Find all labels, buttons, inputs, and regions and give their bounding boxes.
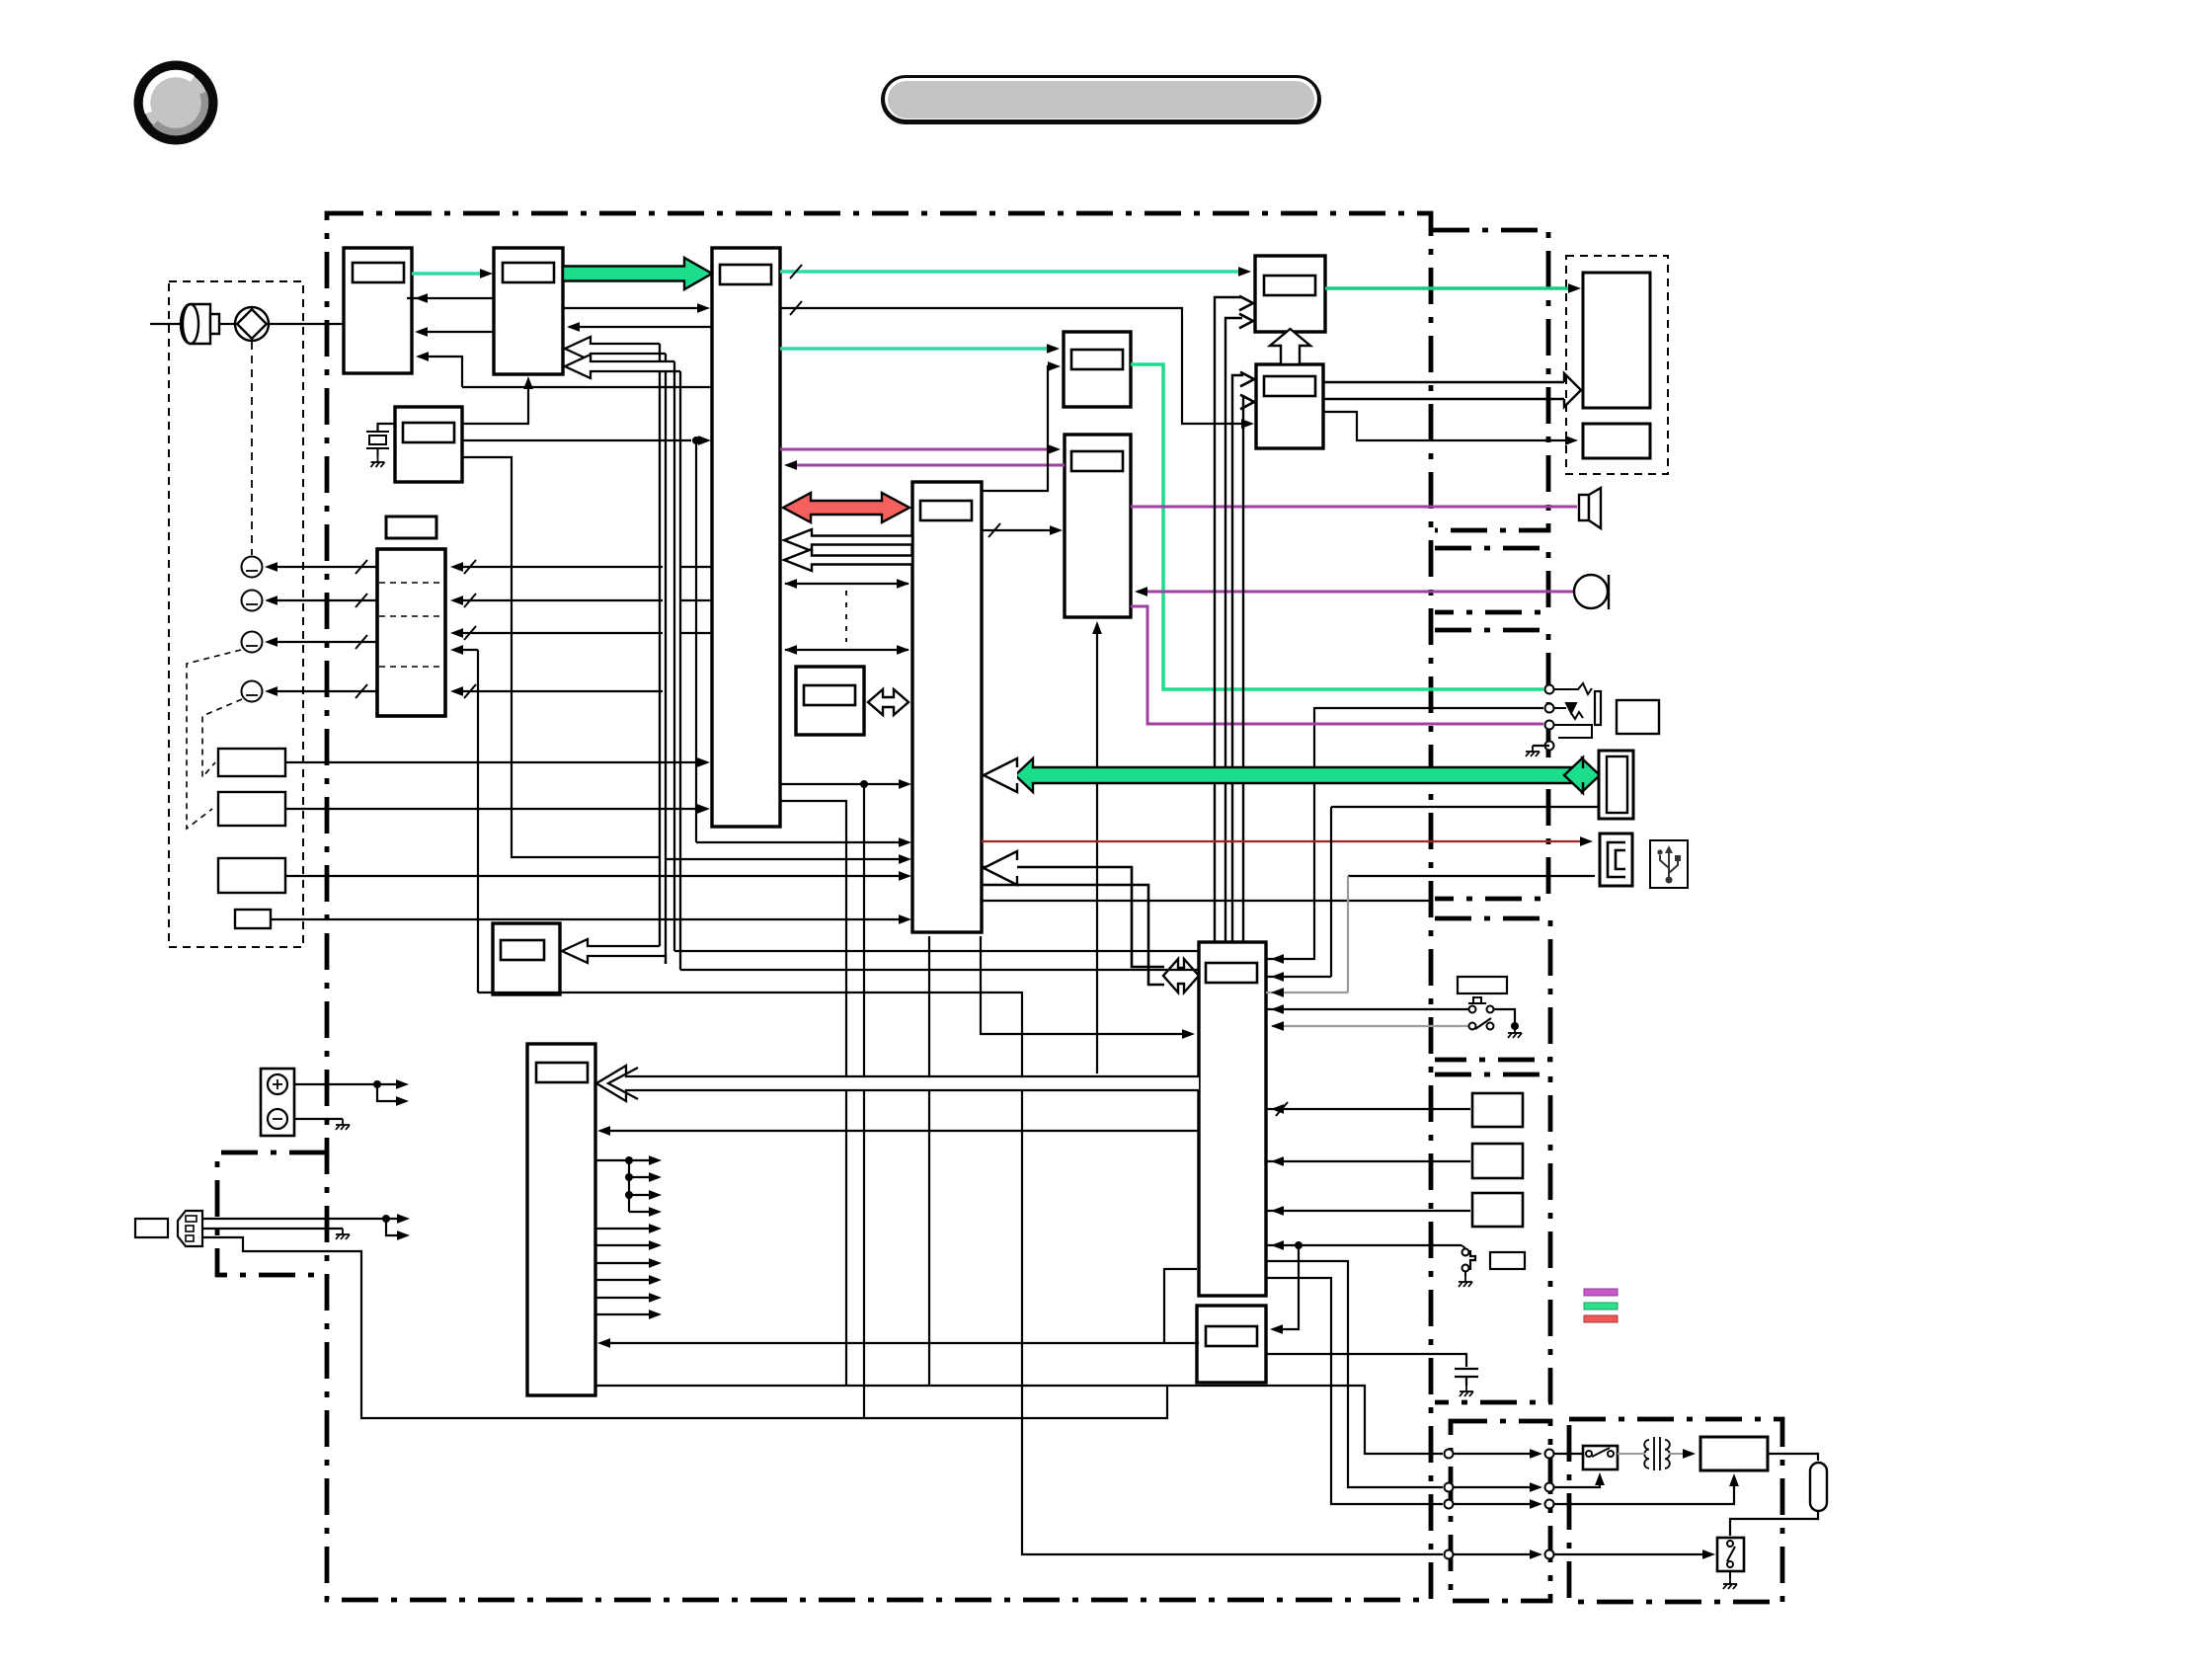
connector pin P1 right y1574	[1545, 1550, 1554, 1559]
wire IC602 to IC701	[601, 1342, 1199, 1344]
wire	[785, 649, 908, 651]
wire SW801 return	[1494, 1009, 1515, 1026]
LCD unit dashed outline	[1566, 256, 1668, 474]
wire clock to CPU	[696, 841, 907, 843]
board outline MAIN BOARD	[327, 213, 1431, 1600]
wire clock branch down	[695, 440, 697, 842]
block IC701 system control	[527, 1044, 595, 1395]
wire DSP aux out down	[780, 801, 846, 1386]
wire p2 vertical	[1330, 807, 1332, 977]
wire SW3 out	[285, 875, 907, 877]
crystal X1	[366, 432, 389, 456]
wire CPU bottom to power IC	[981, 936, 1191, 1034]
jack pin circles	[1545, 685, 1554, 694]
green audio bus IC102 to DSP	[563, 258, 712, 289]
tact switch SW803	[1462, 1249, 1469, 1256]
wire	[785, 583, 908, 585]
wire sensorA to power IC	[1266, 1108, 1470, 1110]
wire osc to IC102 clock	[462, 380, 528, 424]
wire matrix in y641	[454, 632, 663, 634]
wire IC102 to DSP b	[563, 307, 706, 309]
jack circle 4	[242, 681, 263, 702]
red wire CPU to USB	[982, 840, 1589, 842]
block IC602 regulator	[1197, 1306, 1266, 1383]
gray wire relay to transformer	[1618, 1453, 1645, 1455]
wire key line 2	[269, 599, 377, 601]
wire key line 1	[269, 566, 377, 568]
block IC201 DSP	[712, 248, 780, 827]
dashed vertical from preamp	[251, 342, 253, 555]
hollow bus into IC102 upper	[565, 337, 666, 360]
block IC301 main CPU	[912, 482, 982, 932]
wire jack sleeve ground	[1533, 745, 1549, 747]
wire bus vertical pair b	[673, 361, 675, 951]
wire matrix in y574	[454, 566, 663, 568]
dock connector	[1599, 751, 1633, 819]
block SW3	[218, 858, 285, 893]
wire rectifier out	[1768, 1454, 1818, 1461]
block IC102 ADC	[494, 248, 563, 374]
ground AC neutral	[336, 1229, 350, 1239]
block LCD panel	[1583, 273, 1650, 408]
connector pin P1 right y1523	[1545, 1500, 1554, 1509]
block X101 oscillator IC	[395, 407, 462, 482]
hollow bus into IC102 lower	[565, 355, 680, 378]
block IC101 mic amp	[344, 248, 412, 373]
wire	[1243, 398, 1244, 942]
headphone symbol	[1574, 575, 1609, 609]
ground filter cap	[1460, 1386, 1473, 1396]
wire dock aux	[1331, 806, 1599, 808]
block SW4 small	[235, 910, 271, 928]
block LCD backlight	[1583, 424, 1650, 458]
wire matrix 658 vertical	[477, 650, 479, 993]
block IC302 EEPROM	[796, 667, 864, 735]
capacitor C1	[1455, 1369, 1478, 1386]
block R4 switch label rect	[1458, 977, 1507, 993]
wire IC701 fan 1192	[629, 1176, 656, 1178]
headphone jack symbol	[1554, 683, 1601, 738]
wire key line 3	[269, 641, 377, 643]
gray wire switch2 to power IC	[1272, 1025, 1472, 1027]
purple wire amp to DSP	[787, 464, 1065, 467]
connector pin P1 right y1506	[1545, 1483, 1554, 1492]
wire bus vertical pair a	[659, 344, 661, 946]
wire switch1 to power IC	[1266, 1008, 1472, 1010]
ground battery minus	[336, 1119, 350, 1130]
purple wire amp to headphone	[1138, 591, 1574, 594]
wire battery plus	[294, 1083, 377, 1085]
wire	[1164, 1269, 1197, 1343]
mic unit dashed outline	[169, 281, 303, 947]
wire	[1232, 375, 1243, 942]
wire power IC p2	[1266, 976, 1331, 978]
hollow bus CPU to DSP a	[784, 529, 912, 551]
wire IC102 to IC101 d	[418, 331, 494, 333]
ground SW802	[1508, 1027, 1522, 1038]
wire osc clock to DSP	[462, 439, 691, 441]
connector pin P1 left y1574	[1445, 1550, 1454, 1559]
wire	[1323, 398, 1564, 400]
hollow bus into IC701	[596, 1066, 1199, 1101]
wire IC701 out 1296	[595, 1279, 656, 1281]
wire power IC to P1 b	[1266, 1261, 1443, 1487]
board outline R4 switch board	[1435, 918, 1550, 1060]
wire IC701 out 1279	[595, 1262, 656, 1264]
wire DSP to IC102 c	[569, 326, 712, 328]
block IC502 LCD controller	[1256, 364, 1323, 448]
transformer T901	[1644, 1437, 1670, 1470]
wire	[1215, 297, 1242, 942]
wire IC701 out 1314	[595, 1297, 656, 1299]
wire IC701 fan vertical	[628, 1160, 630, 1212]
wire IC701 fan 1210	[629, 1194, 656, 1196]
wire to IC101 f	[419, 357, 462, 387]
wire power IC to P1 c	[1266, 1278, 1443, 1504]
wire SW1 out	[285, 761, 707, 763]
wire key line 4	[269, 690, 377, 692]
green wire LCD driver to panel	[1325, 286, 1577, 290]
legend purple bar	[1584, 1289, 1618, 1296]
hollow double head power IC	[1163, 959, 1199, 993]
dashed ellipsis between arrows	[845, 591, 847, 642]
speaker symbol	[1579, 488, 1601, 528]
wire P1 feed y1472	[1454, 1453, 1539, 1455]
jack circle 3	[242, 632, 263, 653]
relay SW901	[1583, 1446, 1618, 1469]
wire teal IC101 to IC102	[412, 272, 488, 276]
title bar	[881, 75, 1321, 124]
wire to filter cap	[1265, 1354, 1466, 1367]
wire AC branch a	[386, 1218, 404, 1220]
green wire codec to jack tip	[1131, 364, 1543, 689]
battery switch SW902	[1717, 1538, 1744, 1571]
wire osc out2 route	[462, 457, 660, 857]
battery cell symbol	[1810, 1463, 1827, 1511]
hollow head at CPU side	[984, 758, 1017, 792]
battery terminal block	[261, 1069, 294, 1136]
hollow up arrow LCDC to LCD driver	[1270, 329, 1310, 364]
connector pin P1 left y1506	[1445, 1483, 1454, 1492]
block B11 spare rect	[386, 516, 436, 538]
wire mic to preamp	[219, 323, 235, 325]
wire to backlight	[1323, 412, 1574, 440]
USB connector	[1600, 834, 1632, 886]
wire battery plus branch b	[377, 1084, 403, 1101]
wire stub to DSP y608	[680, 599, 712, 601]
hollow bus inner chevron	[608, 1068, 638, 1099]
rectifier block	[1700, 1437, 1768, 1470]
board outline battery pack	[217, 1152, 326, 1275]
wire AC branch b	[386, 1219, 404, 1235]
microphone symbol	[181, 304, 219, 344]
wire R6 switch to power IC	[1266, 1244, 1461, 1246]
wire CPU aux out	[982, 900, 1431, 902]
wire matrix to power board	[478, 993, 1443, 1554]
wire P1 feed y1574	[1454, 1553, 1539, 1555]
wire pin to relay	[1554, 1453, 1583, 1455]
wire sensorB to power IC	[1266, 1160, 1470, 1162]
wire power IC to IC701	[601, 1130, 1199, 1132]
board outline AC ADAPTER P2	[1569, 1419, 1782, 1602]
wire	[982, 867, 1164, 967]
block SW2	[218, 792, 285, 826]
wire CPU to amp	[982, 529, 1059, 531]
wire AC live	[202, 1218, 386, 1220]
wire sensorC to power IC	[1266, 1210, 1470, 1212]
wire AC mains run	[202, 1237, 1167, 1418]
block IC501 LCD driver	[1255, 256, 1325, 332]
wire DSP to LCDC	[780, 308, 1250, 424]
wire IC701 fan 1227	[629, 1211, 656, 1213]
wire stub to DSP y574	[680, 566, 712, 568]
hollow bus CPU to DSP b	[784, 549, 912, 571]
board outline R2 jack board	[1435, 548, 1548, 612]
wire	[629, 1159, 656, 1161]
connector pin P1 right y1472	[1545, 1450, 1554, 1459]
board outline sub column top extension	[1433, 230, 1548, 530]
teal wire DSP to LCD driver	[780, 270, 1247, 274]
wire crystal to osc	[378, 424, 396, 432]
teal wire DSP to codec	[780, 347, 1056, 351]
wire into CPU y870	[665, 858, 907, 860]
green bus left head of right double-head	[1564, 757, 1583, 793]
connector pin P1 left y1523	[1445, 1500, 1454, 1509]
wire DSP to CPU k	[780, 783, 907, 785]
wire cell to switch	[1730, 1511, 1818, 1536]
ground SW902	[1723, 1578, 1737, 1589]
wire DSP feedback	[462, 386, 712, 388]
wire IC701 out 1261	[595, 1244, 656, 1246]
board outline R5 sensor board	[1435, 1074, 1550, 1402]
wire	[1225, 318, 1242, 942]
block sensor A	[1472, 1093, 1523, 1127]
wire P1 feed y1523	[1454, 1503, 1539, 1505]
block R6 switch label rect	[1490, 1252, 1525, 1269]
wire stub to DSP y641	[680, 632, 712, 634]
push switch SW801	[1468, 997, 1486, 1003]
wire IC701 out 1331	[595, 1313, 656, 1315]
wire SW2 out	[285, 808, 706, 810]
wire p3 gray	[1266, 992, 1348, 993]
ground crystal	[371, 456, 385, 467]
block IC401 audio codec	[1064, 332, 1131, 407]
wire	[1323, 381, 1564, 383]
jack circle 2	[242, 591, 263, 611]
slide switch SW802	[1469, 1023, 1476, 1030]
dashed link circle4 to SW1	[202, 699, 242, 777]
wire IC701 fan head	[595, 1159, 629, 1161]
wire bus rail b	[680, 969, 1199, 971]
purple wire amp to jack ring	[1131, 606, 1543, 724]
USB logo box	[1650, 840, 1688, 888]
wire into SW902	[1554, 1553, 1709, 1555]
wire	[1554, 1477, 1734, 1504]
wire battery minus	[294, 1118, 343, 1120]
red bus DSP CPU	[783, 493, 909, 522]
wire	[1554, 1477, 1600, 1487]
block S101 key matrix	[377, 549, 445, 716]
wire	[1273, 1245, 1299, 1329]
wire bus rail a	[674, 950, 1199, 952]
wire AC neutral	[202, 1228, 343, 1230]
legend red bar	[1584, 1315, 1618, 1322]
mic preamp diamond symbol	[235, 307, 269, 341]
board outline R3 connector board	[1435, 630, 1548, 899]
wire matrix in 700	[454, 690, 663, 692]
purple wire amp to speaker	[1131, 506, 1577, 509]
dashed link circle3 to SW2	[187, 650, 241, 829]
gray wire transformer to rectifier	[1669, 1453, 1692, 1455]
wire	[982, 885, 1164, 985]
wire	[696, 439, 706, 441]
wire CPU to codec	[982, 366, 1057, 491]
block IC601 power management	[1199, 942, 1266, 1296]
hollow head CPU side	[984, 851, 1017, 885]
wire	[1713, 1553, 1718, 1555]
block sensor B	[1472, 1144, 1523, 1178]
block IC402 amp	[1065, 435, 1131, 617]
wire CPU bottom down	[928, 936, 930, 1386]
hollow bus EEPROM CPU	[868, 689, 908, 715]
hollow bus into IC703	[562, 939, 666, 964]
wire IC701 to power board	[595, 1386, 1443, 1454]
wire preamp to IC101	[269, 323, 344, 325]
purple wire DSP to amp	[780, 448, 1057, 451]
wire vertical from junction	[863, 784, 865, 1418]
green system bus	[1015, 758, 1600, 792]
wire USB aux	[1348, 875, 1595, 877]
legend green bar	[1584, 1303, 1618, 1310]
connector pin P1 left y1472	[1445, 1450, 1454, 1459]
block SW1	[218, 749, 285, 776]
page number knob circle	[139, 66, 213, 140]
jack circle 1	[242, 557, 263, 578]
wire P1 feed y1506	[1454, 1486, 1539, 1488]
wire battery plus branch a	[377, 1083, 403, 1085]
wire	[1266, 708, 1543, 959]
wire amp bottom control	[1096, 624, 1098, 1073]
block jack aux rect	[1617, 700, 1659, 734]
block sensor C	[1472, 1193, 1523, 1227]
board outline POWER BOARD P1	[1451, 1421, 1550, 1601]
wire matrix in y608	[454, 599, 663, 601]
ground jack	[1526, 746, 1540, 756]
wire SW4 out	[271, 918, 907, 920]
ground SW803	[1459, 1276, 1472, 1287]
block IC703 driver	[493, 923, 560, 994]
AC inlet connector	[135, 1211, 202, 1246]
wire matrix in 658	[456, 649, 478, 651]
wire mic stub	[150, 323, 180, 325]
wire IC701 out 1244	[595, 1228, 656, 1230]
wire IC102 to IC101 a	[407, 297, 494, 299]
